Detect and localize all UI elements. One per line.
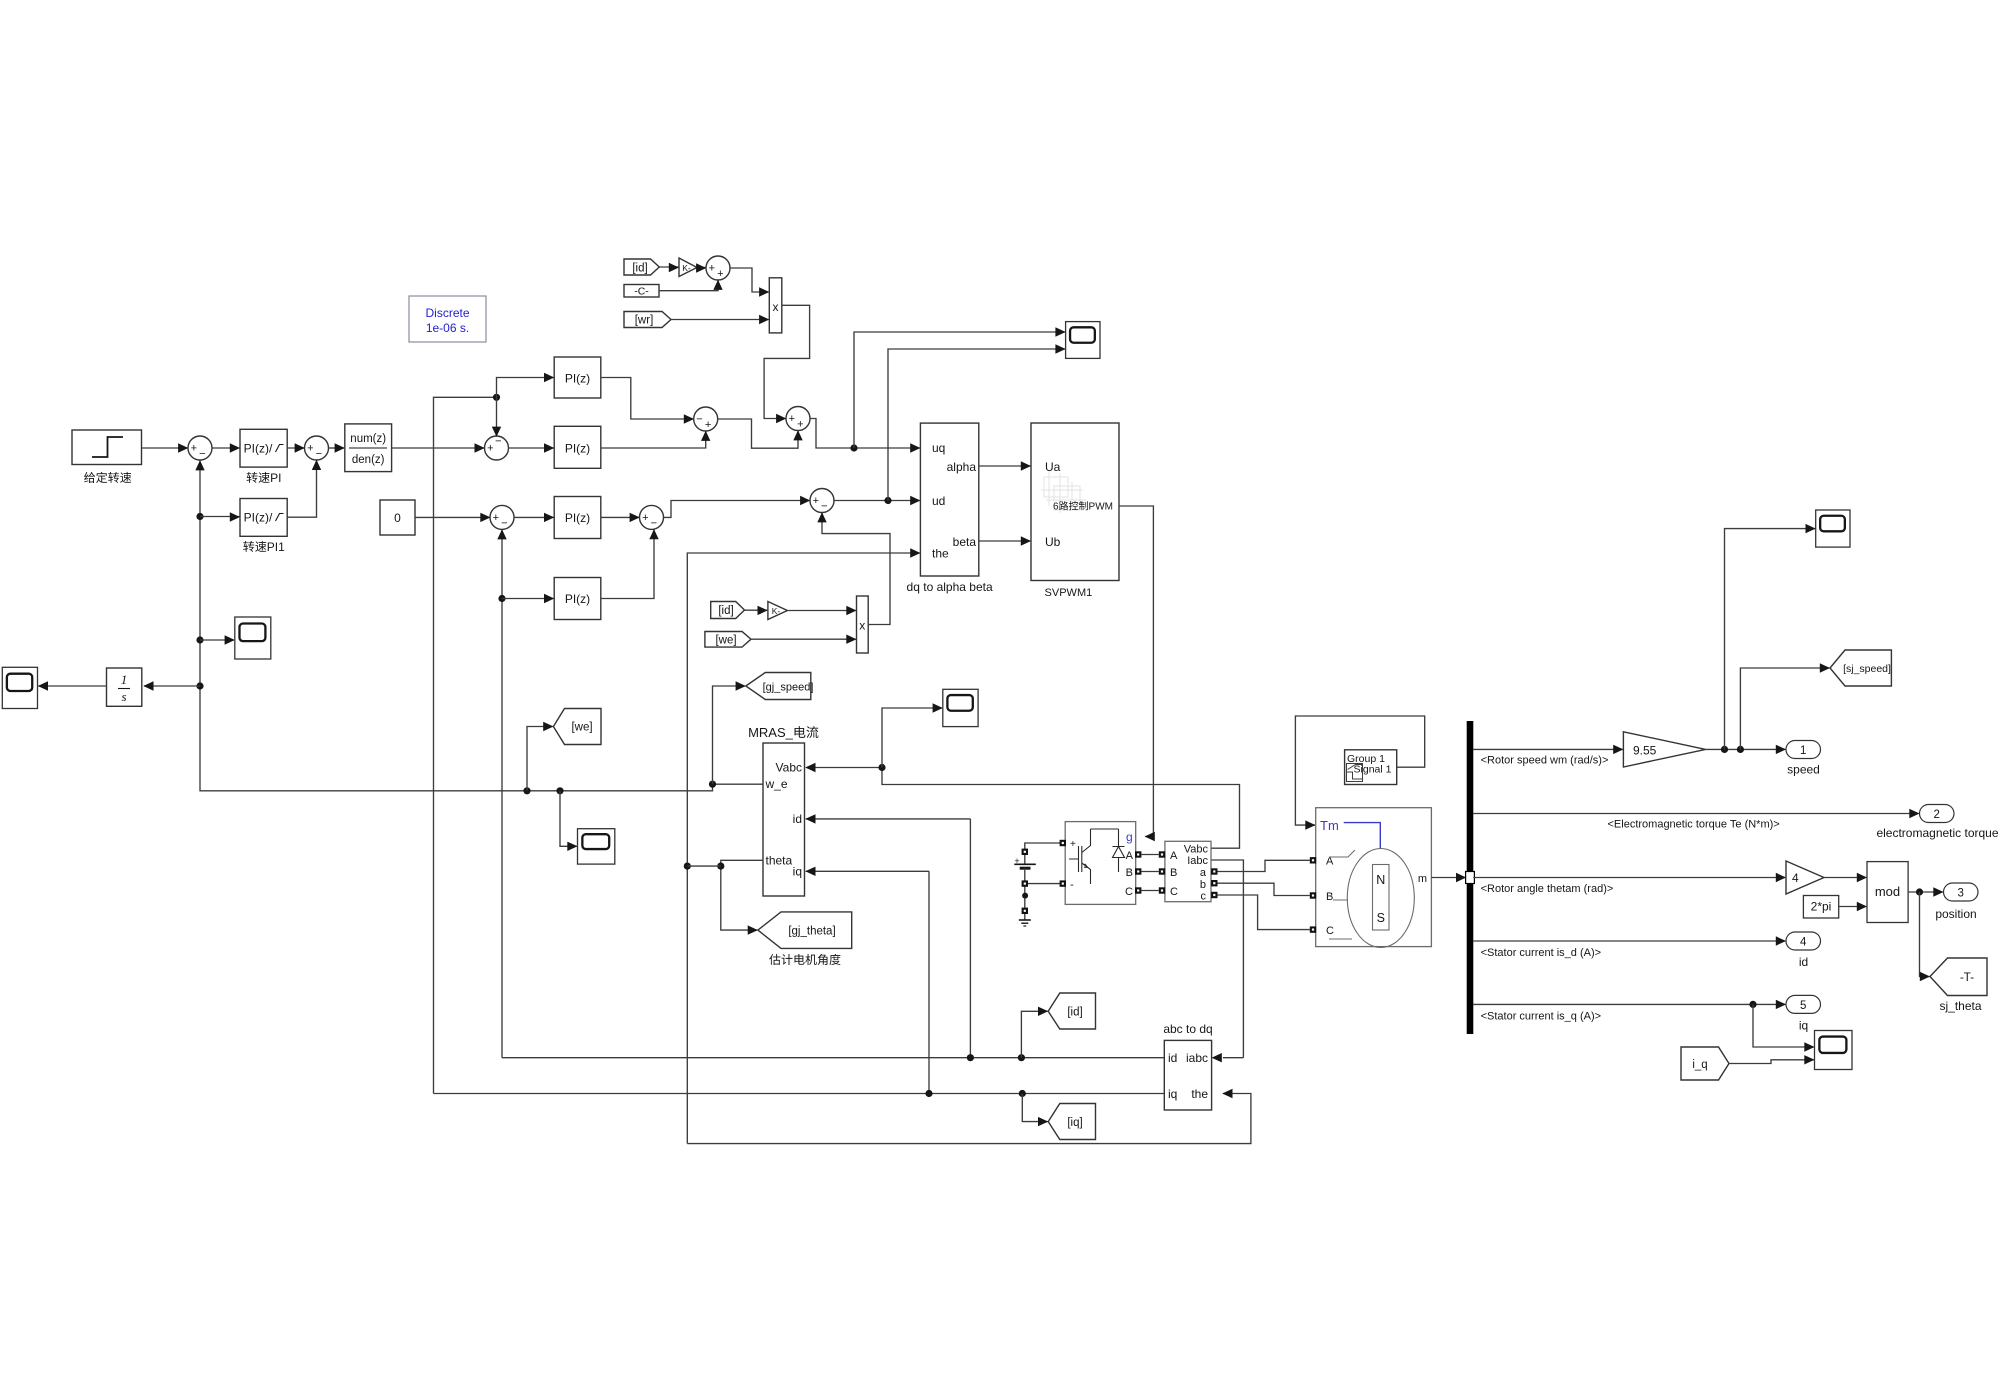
svg-text:PI(z): PI(z) xyxy=(565,442,590,456)
svg-text:1: 1 xyxy=(1800,745,1806,757)
svg-text:dq to alpha beta: dq to alpha beta xyxy=(907,580,993,594)
svg-text:−: − xyxy=(199,448,205,460)
svg-text:+: + xyxy=(717,268,723,280)
svg-text:C: C xyxy=(1170,886,1178,898)
svg-text:5: 5 xyxy=(1800,1000,1806,1012)
svg-text:PI: PI xyxy=(270,471,281,485)
svg-text:+: + xyxy=(813,495,819,507)
svg-text:Tm: Tm xyxy=(1320,818,1339,833)
svg-text:[gj_speed]: [gj_speed] xyxy=(763,682,814,694)
svg-text:−: − xyxy=(316,448,322,460)
svg-text:+: + xyxy=(797,419,803,431)
svg-text:2: 2 xyxy=(1933,809,1939,821)
svg-text:Ub: Ub xyxy=(1045,535,1061,549)
svg-text:-C-: -C- xyxy=(634,286,649,298)
svg-text:mod: mod xyxy=(1875,884,1900,899)
svg-text:PI(z): PI(z) xyxy=(565,372,590,386)
svg-text:0: 0 xyxy=(394,511,401,525)
svg-text:1e-06 s.: 1e-06 s. xyxy=(426,321,469,335)
svg-text:speed: speed xyxy=(1787,763,1820,777)
svg-text:id: id xyxy=(1799,955,1808,969)
svg-text:PWM: PWM xyxy=(1089,502,1113,513)
svg-text:<Electromagnetic torque Te (N*: <Electromagnetic torque Te (N*m)> xyxy=(1608,819,1780,831)
svg-text:g: g xyxy=(1126,830,1133,844)
svg-text:electromagnetic torque: electromagnetic torque xyxy=(1876,826,1998,840)
svg-text:−: − xyxy=(651,518,657,530)
svg-text:PI1: PI1 xyxy=(267,540,285,554)
svg-text:N: N xyxy=(1376,873,1385,887)
svg-text:iq: iq xyxy=(1168,1087,1177,1101)
svg-text:Vabc: Vabc xyxy=(776,761,802,775)
svg-text:1: 1 xyxy=(121,672,128,687)
svg-text:-: - xyxy=(1070,879,1074,891)
svg-text:[iq]: [iq] xyxy=(1067,1117,1082,1129)
svg-text:+: + xyxy=(789,413,795,425)
svg-text:C: C xyxy=(1326,925,1334,937)
svg-text:PI(z)/: PI(z)/ xyxy=(244,442,273,456)
svg-text:x: x xyxy=(859,619,865,633)
svg-text:MRAS_: MRAS_ xyxy=(748,725,794,740)
svg-text:+: + xyxy=(487,443,493,455)
svg-text:[gj_theta]: [gj_theta] xyxy=(788,926,835,938)
svg-text:C: C xyxy=(1125,886,1133,898)
svg-text:B: B xyxy=(1170,867,1177,879)
svg-text:B: B xyxy=(1326,891,1333,903)
svg-text:w_e: w_e xyxy=(765,777,788,791)
svg-text:K-: K- xyxy=(682,263,691,273)
svg-text:<Rotor speed wm (rad/s)>: <Rotor speed wm (rad/s)> xyxy=(1481,755,1609,767)
svg-text:+: + xyxy=(493,512,499,524)
svg-text:s: s xyxy=(121,689,126,704)
svg-text:[we]: [we] xyxy=(571,722,592,734)
svg-text:A: A xyxy=(1126,850,1134,862)
svg-text:iq: iq xyxy=(793,865,802,879)
svg-text:den(z): den(z) xyxy=(352,454,385,466)
svg-text:position: position xyxy=(1935,907,1976,921)
svg-text:-T-: -T- xyxy=(1960,972,1974,984)
svg-text:4: 4 xyxy=(1792,871,1799,885)
svg-text:the: the xyxy=(932,547,949,561)
svg-text:−: − xyxy=(495,436,501,448)
svg-text:<Rotor angle thetam (rad)>: <Rotor angle thetam (rad)> xyxy=(1481,883,1614,895)
svg-text:[we]: [we] xyxy=(715,635,736,647)
svg-text:ud: ud xyxy=(932,494,945,508)
svg-text:iq: iq xyxy=(1799,1019,1808,1033)
svg-text:m: m xyxy=(1418,873,1427,885)
svg-text:Ua: Ua xyxy=(1045,460,1061,474)
svg-text:i_q: i_q xyxy=(1692,1059,1707,1071)
svg-text:[sj_speed]: [sj_speed] xyxy=(1843,663,1891,675)
svg-text:9.55: 9.55 xyxy=(1633,744,1657,758)
svg-text:+: + xyxy=(1014,856,1019,866)
svg-text:−: − xyxy=(821,501,827,513)
svg-text:Discrete: Discrete xyxy=(425,306,469,320)
svg-text:S: S xyxy=(1377,911,1385,925)
svg-text:beta: beta xyxy=(953,535,977,549)
svg-text:b: b xyxy=(1200,879,1206,891)
svg-text:<Stator current is_q (A)>: <Stator current is_q (A)> xyxy=(1481,1011,1601,1023)
svg-text:id: id xyxy=(1168,1051,1177,1065)
svg-text:−: − xyxy=(501,518,507,530)
svg-text:3: 3 xyxy=(1957,888,1963,900)
svg-text:Signal 1: Signal 1 xyxy=(1354,764,1392,776)
svg-text:theta: theta xyxy=(766,854,793,868)
svg-text:SVPWM1: SVPWM1 xyxy=(1045,587,1093,599)
svg-text:Iabc: Iabc xyxy=(1187,855,1208,867)
svg-text:alpha: alpha xyxy=(947,460,977,474)
svg-text:[id]: [id] xyxy=(632,263,647,275)
svg-text:+: + xyxy=(1070,839,1076,850)
svg-text:Vabc: Vabc xyxy=(1184,844,1209,856)
svg-text:the: the xyxy=(1191,1087,1208,1101)
svg-text:[wr]: [wr] xyxy=(635,315,654,327)
svg-text:K-: K- xyxy=(772,606,781,616)
svg-text:6: 6 xyxy=(1053,502,1059,513)
svg-text:[id]: [id] xyxy=(1067,1007,1082,1019)
svg-text:iabc: iabc xyxy=(1186,1051,1208,1065)
svg-text:+: + xyxy=(191,443,197,455)
svg-text:−: − xyxy=(696,414,702,426)
svg-text:num(z): num(z) xyxy=(350,433,386,445)
svg-text:+: + xyxy=(642,512,648,524)
svg-text:2*pi: 2*pi xyxy=(1811,900,1832,914)
svg-text:PI(z): PI(z) xyxy=(565,511,590,525)
svg-text:+: + xyxy=(307,443,313,455)
svg-text:abc to dq: abc to dq xyxy=(1163,1022,1212,1036)
svg-text:c: c xyxy=(1201,891,1207,903)
svg-text:x: x xyxy=(773,300,779,314)
svg-text:uq: uq xyxy=(932,441,945,455)
svg-text:sj_theta: sj_theta xyxy=(1939,999,1981,1013)
svg-text:a: a xyxy=(1200,867,1207,879)
svg-text:+: + xyxy=(709,263,715,275)
svg-text:<Stator current is_d (A)>: <Stator current is_d (A)> xyxy=(1481,947,1601,959)
svg-text:A: A xyxy=(1170,850,1178,862)
svg-text:PI(z)/: PI(z)/ xyxy=(244,511,273,525)
svg-text:+: + xyxy=(705,419,711,431)
svg-text:id: id xyxy=(793,812,802,826)
svg-text:PI(z): PI(z) xyxy=(565,592,590,606)
svg-text:4: 4 xyxy=(1800,937,1807,949)
svg-text:B: B xyxy=(1126,867,1133,879)
svg-text:[id]: [id] xyxy=(718,605,733,617)
